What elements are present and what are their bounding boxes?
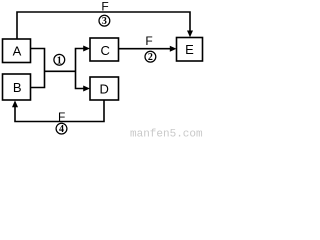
svg-text:2: 2 — [148, 52, 153, 63]
svg-text:F: F — [145, 34, 152, 48]
svg-text:4: 4 — [59, 124, 64, 135]
svg-text:B: B — [13, 80, 22, 95]
svg-text:F: F — [101, 0, 108, 14]
svg-text:1: 1 — [57, 55, 62, 66]
svg-text:3: 3 — [102, 16, 107, 27]
svg-text:A: A — [13, 44, 22, 59]
svg-text:manfen5.com: manfen5.com — [130, 129, 203, 141]
svg-text:D: D — [100, 82, 109, 97]
svg-text:E: E — [185, 42, 194, 57]
svg-text:C: C — [101, 43, 110, 58]
svg-text:F: F — [58, 110, 65, 124]
